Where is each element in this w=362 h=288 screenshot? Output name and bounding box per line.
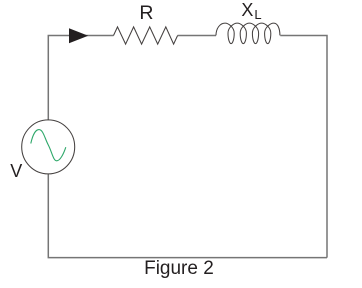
- label XL: [241, 0, 261, 22]
- wire top-left segment: [48, 36, 113, 121]
- inductor XL coil: [216, 23, 280, 43]
- wire top middle segment: [178, 35, 216, 37]
- label V: [10, 161, 22, 182]
- ac source V circle: [22, 120, 75, 174]
- wire bottom segment: [48, 174, 327, 258]
- label R: [139, 2, 153, 25]
- wire top-right and right side: [280, 36, 327, 258]
- caption Figure 2: [144, 258, 214, 280]
- sine wave inside source: [31, 130, 66, 161]
- current arrow: [69, 28, 88, 43]
- resistor R1 zigzag: [114, 27, 178, 44]
